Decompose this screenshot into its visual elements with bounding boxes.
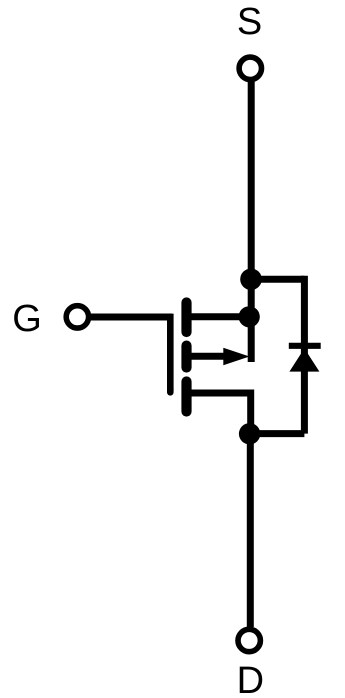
transistor Q1 body arrow (points right: P-channel) xyxy=(223,348,249,366)
node C junction drain-diode xyxy=(239,423,260,444)
wire drain contact (bottom bar, corner, down to node C) xyxy=(189,393,251,434)
wire gate lead xyxy=(89,314,173,321)
svg-text:G: G xyxy=(12,298,42,340)
wire diode branch right vertical xyxy=(301,276,308,434)
wire source contact (top bar to node B) xyxy=(189,313,249,320)
terminal G xyxy=(66,306,88,328)
transistor Q1 channel bar bottom xyxy=(181,382,191,412)
wire drain vertical xyxy=(247,434,254,628)
transistor Q1 gate electrode xyxy=(167,314,174,390)
svg-text:D: D xyxy=(237,660,264,698)
wire diode branch top xyxy=(251,276,304,283)
transistor Q1 channel bar top xyxy=(181,303,191,333)
body diode cathode bar xyxy=(289,343,321,349)
wire source vertical xyxy=(248,80,255,363)
wire diode branch bottom xyxy=(250,430,304,437)
node A junction source-diode xyxy=(240,269,262,291)
node B junction source-contact xyxy=(239,306,260,327)
terminal D xyxy=(238,629,260,651)
svg-text:S: S xyxy=(237,1,262,43)
transistor Q1 channel bar middle xyxy=(181,346,191,368)
terminal S xyxy=(239,57,261,79)
body diode anode triangle xyxy=(289,348,319,371)
wire body connection (middle bar toward source line) xyxy=(189,353,226,360)
